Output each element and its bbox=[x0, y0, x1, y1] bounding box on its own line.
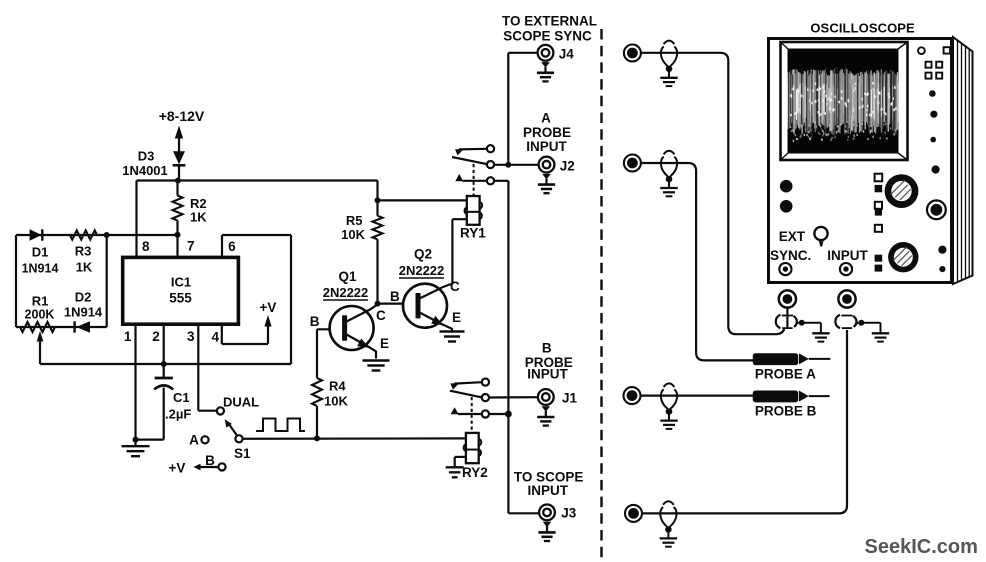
svg-text:+8-12V: +8-12V bbox=[159, 108, 205, 124]
svg-text:S1: S1 bbox=[234, 446, 251, 461]
svg-text:A: A bbox=[189, 433, 199, 448]
svg-text:SeekIC.com: SeekIC.com bbox=[865, 536, 978, 558]
svg-text:1K: 1K bbox=[190, 210, 207, 225]
svg-text:1N914: 1N914 bbox=[64, 305, 103, 320]
svg-text:E: E bbox=[452, 310, 461, 325]
svg-text:Q1: Q1 bbox=[338, 269, 357, 284]
svg-text:SCOPE SYNC: SCOPE SYNC bbox=[503, 29, 592, 44]
svg-text:PROBE B: PROBE B bbox=[755, 404, 817, 419]
svg-text:10K: 10K bbox=[341, 227, 365, 242]
svg-text:D2: D2 bbox=[75, 290, 92, 305]
svg-text:8: 8 bbox=[142, 239, 150, 254]
svg-text:1N914: 1N914 bbox=[22, 262, 59, 276]
svg-text:J2: J2 bbox=[560, 159, 575, 174]
svg-text:200K: 200K bbox=[25, 308, 55, 322]
svg-text:C1: C1 bbox=[173, 390, 190, 405]
svg-text:2N2222: 2N2222 bbox=[399, 263, 445, 278]
svg-text:4: 4 bbox=[211, 330, 219, 345]
svg-text:C: C bbox=[450, 279, 460, 294]
svg-text:.2µF: .2µF bbox=[165, 407, 191, 422]
svg-text:7: 7 bbox=[187, 239, 195, 254]
svg-text:Q2: Q2 bbox=[414, 247, 432, 262]
svg-text:R3: R3 bbox=[75, 244, 92, 259]
svg-text:+V: +V bbox=[260, 300, 277, 315]
svg-text:10K: 10K bbox=[324, 394, 348, 409]
svg-text:1N4001: 1N4001 bbox=[122, 163, 168, 178]
svg-text:PROBE A: PROBE A bbox=[755, 367, 816, 382]
svg-text:3: 3 bbox=[187, 329, 195, 344]
svg-text:EXT: EXT bbox=[779, 229, 806, 244]
svg-text:SYNC.: SYNC. bbox=[770, 248, 811, 263]
svg-text:R5: R5 bbox=[346, 213, 363, 228]
svg-text:B: B bbox=[390, 289, 400, 304]
svg-text:J3: J3 bbox=[561, 506, 577, 521]
svg-text:INPUT: INPUT bbox=[527, 367, 568, 382]
svg-text:C: C bbox=[376, 308, 386, 323]
svg-text:RY2: RY2 bbox=[462, 465, 488, 480]
svg-text:TO EXTERNAL: TO EXTERNAL bbox=[502, 14, 597, 29]
svg-text:PROBE: PROBE bbox=[523, 125, 571, 140]
svg-text:B: B bbox=[310, 314, 320, 329]
svg-text:INPUT: INPUT bbox=[827, 248, 868, 263]
svg-text:A: A bbox=[541, 110, 551, 125]
svg-text:J4: J4 bbox=[559, 47, 575, 62]
svg-text:IC1: IC1 bbox=[171, 275, 191, 290]
svg-text:INPUT: INPUT bbox=[526, 139, 567, 154]
svg-text:D3: D3 bbox=[138, 149, 155, 164]
svg-text:6: 6 bbox=[228, 239, 236, 254]
svg-text:2N2222: 2N2222 bbox=[323, 285, 369, 300]
svg-text:R4: R4 bbox=[329, 379, 346, 394]
svg-text:+V: +V bbox=[169, 461, 186, 476]
svg-text:R1: R1 bbox=[32, 294, 49, 309]
svg-text:D1: D1 bbox=[32, 245, 49, 260]
svg-text:OSCILLOSCOPE: OSCILLOSCOPE bbox=[810, 21, 915, 36]
svg-text:E: E bbox=[380, 336, 389, 351]
svg-text:1: 1 bbox=[124, 329, 132, 344]
svg-text:INPUT: INPUT bbox=[527, 483, 568, 498]
svg-text:555: 555 bbox=[169, 291, 192, 306]
svg-text:1K: 1K bbox=[76, 260, 93, 275]
svg-text:DUAL: DUAL bbox=[223, 395, 259, 410]
svg-text:J1: J1 bbox=[562, 391, 578, 406]
svg-text:2: 2 bbox=[152, 329, 160, 344]
svg-text:RY1: RY1 bbox=[460, 226, 486, 241]
svg-text:B: B bbox=[205, 453, 215, 468]
svg-text:B: B bbox=[542, 341, 552, 356]
